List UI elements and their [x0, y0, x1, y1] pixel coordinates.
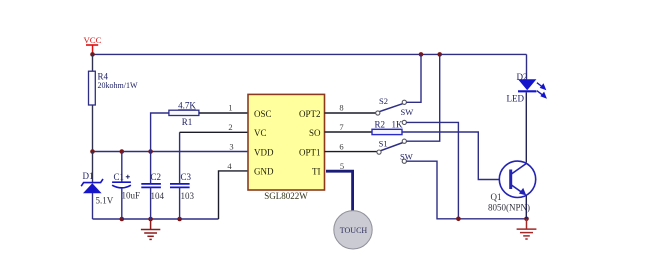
wire rail to LED [526, 54, 528, 79]
wire bus to C1 [121, 152, 123, 183]
wire ground bus [93, 218, 219, 220]
svg-text:SW: SW [401, 107, 414, 117]
svg-text:S2: S2 [379, 96, 388, 106]
svg-text:R2: R2 [375, 119, 386, 129]
wire pin2 VC [180, 131, 248, 133]
wire pin5 TI bus [326, 171, 353, 211]
svg-text:10uF: 10uF [122, 191, 141, 201]
junction gnd C3 [177, 217, 182, 222]
svg-text:SW: SW [400, 152, 413, 162]
svg-text:SGL8022W: SGL8022W [264, 191, 308, 201]
junction top rail S1 branch [437, 52, 442, 57]
ground Q1 [517, 219, 537, 239]
resistor R1 [169, 100, 199, 127]
wire R4 to VDD bus [92, 105, 94, 152]
wire Q1 emitter to gnd [525, 195, 527, 218]
LED D2 [507, 72, 546, 104]
svg-text:TI: TI [312, 167, 321, 177]
svg-text:C1: C1 [114, 172, 125, 182]
capacitor C1 [112, 172, 140, 201]
svg-text:VC: VC [254, 128, 267, 138]
svg-text:3: 3 [229, 142, 233, 152]
wire pin6 to S1 [325, 151, 377, 153]
svg-text:1K: 1K [392, 119, 404, 129]
switch S1 [377, 139, 413, 164]
wire pin7 to R2 [325, 131, 373, 133]
junction gnd C1 [120, 217, 125, 222]
op-amp U1 SGL8022W [248, 94, 325, 201]
wire bus to C2 [150, 152, 152, 184]
junction bus C1 [120, 149, 125, 154]
power VCC [83, 35, 101, 55]
svg-text:4: 4 [227, 161, 232, 171]
wire C2 to gnd bus [150, 187, 152, 219]
wire R1 left to bus [151, 113, 169, 152]
svg-text:VCC: VCC [83, 35, 101, 45]
wire C3 to gnd bus [179, 187, 181, 219]
wire D1 to ground bus [92, 193, 94, 219]
svg-text:D1: D1 [83, 171, 94, 181]
svg-text:LED: LED [507, 94, 525, 104]
svg-text:8050(NPN): 8050(NPN) [488, 203, 530, 213]
svg-text:R4: R4 [98, 72, 109, 82]
junction gnd C2 [148, 217, 153, 222]
svg-text:2: 2 [228, 122, 232, 132]
svg-text:Q1: Q1 [491, 192, 502, 202]
wire VCC to R4 [92, 54, 94, 71]
wire R2 to Q1 base [402, 132, 500, 180]
svg-text:1: 1 [228, 102, 232, 112]
svg-text:GND: GND [254, 167, 274, 177]
svg-text:20kohm/1W: 20kohm/1W [98, 81, 138, 90]
wire S1 upper to rail [406, 54, 439, 141]
wire pin4 GND [219, 171, 249, 219]
svg-text:7: 7 [339, 122, 343, 132]
svg-text:103: 103 [181, 191, 195, 201]
svg-text:S1: S1 [379, 139, 388, 149]
svg-text:104: 104 [151, 191, 165, 201]
wire R1 to pin1 [199, 112, 248, 114]
wire C1 to gnd bus [121, 188, 123, 219]
svg-text:SO: SO [309, 128, 321, 138]
wire VC net vertical [179, 132, 181, 184]
diode D1 zener [81, 171, 114, 206]
svg-text:OPT2: OPT2 [299, 109, 321, 119]
wire top rail [93, 53, 527, 55]
junction bus C2 [148, 149, 153, 154]
junction top rail S2 branch [419, 52, 424, 57]
junction gnd line Q1 emitter [524, 217, 529, 222]
transistor Q1 [488, 161, 536, 212]
svg-text:4.7K: 4.7K [178, 100, 196, 110]
capacitor C3 [170, 172, 195, 201]
junction gnd line S2 branch [456, 217, 461, 222]
wire bus to D1 [92, 152, 94, 183]
wire S2 upper to rail [406, 54, 421, 102]
svg-text:OPT1: OPT1 [299, 147, 321, 157]
svg-text:C3: C3 [181, 172, 192, 182]
ground [141, 219, 160, 239]
wire LED to Q1 collector [525, 92, 527, 162]
svg-text:5.1V: 5.1V [96, 196, 114, 206]
junction VCC node [90, 52, 95, 57]
svg-text:R1: R1 [182, 117, 193, 127]
svg-text:8: 8 [339, 102, 343, 112]
resistor R4 [89, 71, 138, 105]
touch pad TOUCH [334, 211, 372, 249]
wire S1 lower to gnd line [406, 161, 526, 219]
wire VDD bus [93, 151, 249, 153]
wire S2 lower to gnd line [406, 122, 458, 218]
svg-text:VDD: VDD [254, 147, 274, 157]
svg-text:C2: C2 [151, 172, 162, 182]
junction bus D1 [90, 149, 95, 154]
svg-text:TOUCH: TOUCH [340, 226, 368, 235]
switch S2 [376, 96, 414, 124]
svg-text:6: 6 [339, 142, 343, 152]
resistor R2 [372, 119, 403, 134]
wire pin8 to S2 [325, 112, 376, 114]
svg-text:5: 5 [340, 161, 344, 171]
svg-text:OSC: OSC [254, 109, 272, 119]
capacitor C2 [141, 172, 164, 201]
